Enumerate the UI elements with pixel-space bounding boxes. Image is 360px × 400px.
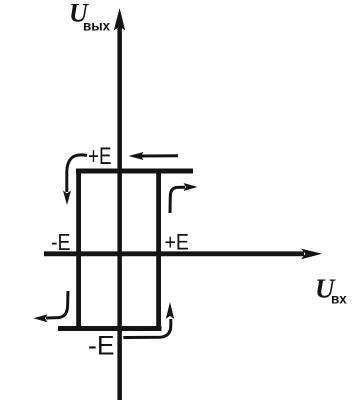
curved arrow bottom-left pointing left: [46, 291, 68, 318]
hysteresis left edge: [76, 169, 81, 331]
svg-text:-E: -E: [51, 229, 71, 255]
horizontal axis U_in: [44, 251, 304, 256]
vertical axis U_out: [117, 26, 122, 400]
curved arrow bottom-right pointing up: [123, 319, 171, 338]
straight left arrow at top: [141, 154, 178, 157]
curved arrow top-left pointing down: [67, 155, 87, 192]
svg-text:-E: -E: [88, 331, 115, 361]
horizontal axis arrowhead: [301, 249, 322, 260]
svg-text:+E: +E: [165, 229, 190, 254]
hysteresis right edge: [156, 169, 161, 331]
svg-text:+E: +E: [88, 143, 112, 170]
vertical axis arrowhead: [114, 8, 125, 31]
curved arrow right-middle pointing right: [170, 187, 185, 213]
hysteresis top edge (+E level): [76, 169, 193, 174]
hysteresis bottom edge (-E level): [58, 326, 162, 331]
svg-text:вых: вых: [83, 18, 110, 34]
svg-text:вх: вх: [331, 292, 347, 307]
